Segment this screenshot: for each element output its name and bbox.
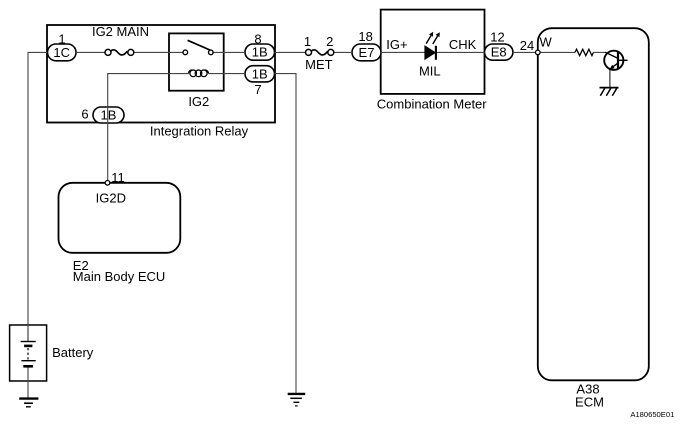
svg-text:Integration Relay: Integration Relay [150,124,249,139]
fuse IG2 MAIN [105,49,134,55]
block Integration Relay box [47,25,275,123]
LED MIL diode [425,46,436,60]
svg-text:CHK: CHK [449,37,477,52]
svg-text:1: 1 [304,34,311,49]
connector oval 1C [48,44,77,61]
battery cell plates [21,342,36,367]
wire relay contact to pin 8 [213,51,245,53]
svg-text:MIL: MIL [419,63,441,78]
ground transistor [600,88,619,96]
wire resistor to transistor base [594,51,606,53]
svg-text:MET: MET [305,57,333,72]
connector oval 1B pin 7 [245,66,275,82]
svg-text:1: 1 [58,31,65,46]
svg-text:IG2: IG2 [188,94,209,109]
wire pin 8 to fuse MET [275,51,306,53]
svg-text:Battery: Battery [52,345,94,360]
svg-text:24: 24 [520,38,534,53]
relay coil [188,70,208,77]
svg-text:2: 2 [326,34,333,49]
wire fuse MET to E7 [334,51,353,53]
svg-text:E7: E7 [359,45,375,60]
svg-text:IG2 MAIN: IG2 MAIN [92,24,149,39]
fuse MET [306,49,334,55]
block Combination Meter box [381,10,485,94]
svg-text:IG2D: IG2D [96,190,126,205]
wire relay coil to pin 7 [209,73,245,75]
relay box IG2 [169,33,224,90]
svg-text:1B: 1B [252,66,268,81]
connector oval E8 [485,44,513,60]
svg-text:ECM: ECM [575,394,604,409]
battery box [10,325,47,381]
wire battery positive lead [27,325,29,342]
connector oval 1B pin 6 [93,107,124,123]
svg-text:Combination Meter: Combination Meter [377,97,487,112]
svg-text:Main Body ECU: Main Body ECU [73,269,165,284]
wire battery to 1C [28,52,48,341]
node 11 [105,181,110,186]
svg-text:IG+: IG+ [386,37,407,52]
wire E7 to MIL anode [381,51,425,53]
connector oval E7 [352,44,381,61]
node 24 [536,50,541,55]
wire MIL cathode to E8 [436,51,484,53]
transistor Q [604,51,627,70]
svg-text:18: 18 [358,29,372,44]
relay switch contact right [209,50,214,55]
ground battery [19,399,38,407]
ground pin 7 [288,394,306,406]
svg-text:1C: 1C [53,45,70,60]
wire relay coil to pin 6 and node 11 [108,74,189,183]
relay switch blade [188,40,211,50]
wire E8 to node 24 [513,51,536,53]
wire battery negative to ground [27,366,29,398]
svg-text:W: W [540,35,553,50]
svg-text:12: 12 [490,30,504,45]
svg-text:1B: 1B [252,45,268,60]
svg-text:E8: E8 [491,45,507,60]
wire fuse to relay [134,51,183,53]
svg-text:1B: 1B [101,108,117,123]
relay switch contact left [183,50,188,55]
connector oval 1B pin 8 [245,44,275,60]
wire node 24 to resistor [540,51,575,53]
block E2 Main Body ECU box [59,183,181,253]
wire pin 7 to ground [275,74,297,393]
resistor R [575,49,594,55]
svg-text:6: 6 [81,107,88,122]
svg-text:7: 7 [254,82,261,97]
wire 1C to fuse IG2 MAIN [76,51,105,53]
svg-text:A180650E01: A180650E01 [630,410,674,419]
LED MIL arrows [426,32,440,44]
block ECM box A38 [538,28,649,380]
svg-text:11: 11 [111,170,125,185]
wire transistor emitter to ground [609,70,611,88]
